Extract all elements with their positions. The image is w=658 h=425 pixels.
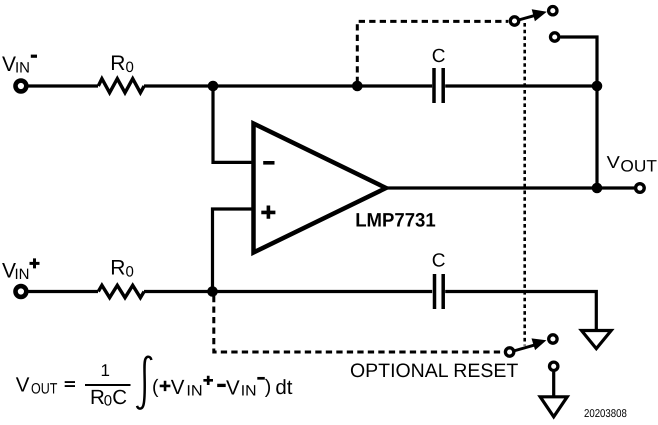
svg-text:V: V xyxy=(607,152,621,172)
svg-text:(: ( xyxy=(152,376,159,398)
svg-text:R: R xyxy=(90,386,105,409)
svg-text:LMP7731: LMP7731 xyxy=(355,209,436,231)
svg-text:IN: IN xyxy=(241,383,257,400)
svg-text:V: V xyxy=(16,374,30,397)
svg-text:R: R xyxy=(110,52,125,75)
svg-text:V: V xyxy=(171,376,185,399)
svg-text:OUT: OUT xyxy=(620,158,657,176)
svg-text:IN: IN xyxy=(15,266,30,283)
svg-text:R: R xyxy=(110,257,125,280)
svg-text:C: C xyxy=(432,251,446,272)
svg-text:0: 0 xyxy=(126,59,134,76)
svg-text:0: 0 xyxy=(126,264,134,281)
svg-text:0: 0 xyxy=(104,393,112,410)
svg-text:IN: IN xyxy=(15,60,30,77)
svg-text:C: C xyxy=(432,46,446,67)
svg-text:20203808: 20203808 xyxy=(584,408,627,420)
svg-text:OPTIONAL RESET: OPTIONAL RESET xyxy=(350,360,518,382)
svg-text:1: 1 xyxy=(101,361,110,380)
svg-text:): ) xyxy=(265,376,272,398)
svg-text:dt: dt xyxy=(275,376,292,399)
svg-text:V: V xyxy=(2,53,16,76)
svg-text:OUT: OUT xyxy=(31,380,57,397)
svg-text:C: C xyxy=(112,386,127,409)
svg-text:IN: IN xyxy=(186,383,202,400)
svg-text:V: V xyxy=(226,377,240,400)
